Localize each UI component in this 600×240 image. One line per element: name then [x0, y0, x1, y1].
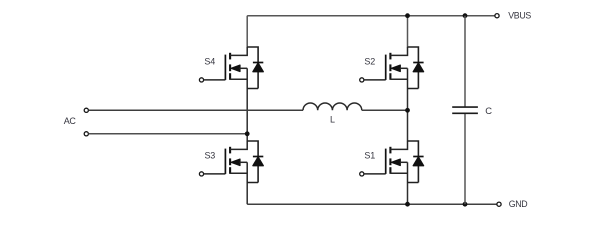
capacitor C bottom plate [452, 112, 478, 114]
wire: S4 source down to left switch node and S3 drain [246, 89, 248, 142]
wire: top rail to S2 drain [407, 16, 409, 48]
transistor S3 (N-MOSFET with body diode) [199, 141, 263, 183]
svg-text:L: L [330, 114, 335, 124]
transistor S4 (N-MOSFET with body diode) [199, 47, 263, 89]
transistor S2 (N-MOSFET with body diode) [360, 47, 424, 89]
wire: bottom GND rail [247, 203, 497, 205]
terminal: AC line (top) [84, 108, 88, 112]
terminal GND [497, 202, 501, 206]
junction: right switch node [405, 108, 410, 113]
svg-text:C: C [485, 105, 492, 116]
svg-text:S4: S4 [204, 56, 215, 66]
wire: top rail to S4 drain [246, 16, 248, 48]
wire: top VBUS rail [247, 15, 495, 17]
svg-text:S2: S2 [364, 56, 375, 66]
svg-text:S1: S1 [364, 151, 375, 161]
inductor L [303, 103, 362, 110]
wire: AC line to inductor [89, 109, 303, 111]
svg-text:GND: GND [509, 199, 528, 209]
junction: capacitor branch to bottom rail [463, 202, 468, 207]
junction: right leg to bottom rail [405, 202, 410, 207]
wire: inductor to right leg switch node [362, 109, 408, 111]
wire: S2 source down to right switch node and S1 drain [407, 89, 409, 142]
svg-text:VBUS: VBUS [508, 10, 531, 20]
wire: S1 source to bottom rail [407, 183, 409, 205]
terminal VBUS [495, 14, 499, 18]
wire: AC neutral to left leg switch node [89, 133, 248, 135]
svg-text:S3: S3 [205, 151, 216, 161]
junction: right leg to top rail [405, 13, 410, 18]
wire: capacitor upper branch [464, 16, 466, 107]
junction: capacitor branch to top rail [463, 13, 468, 18]
wire: capacitor lower branch [464, 114, 466, 205]
terminal: AC neutral (bottom) [84, 132, 88, 136]
capacitor C top plate [452, 106, 478, 108]
junction: left switch node [245, 131, 250, 136]
svg-text:AC: AC [64, 116, 77, 126]
transistor S1 (N-MOSFET with body diode) [360, 141, 424, 183]
wire: S3 source to bottom rail [246, 183, 248, 205]
